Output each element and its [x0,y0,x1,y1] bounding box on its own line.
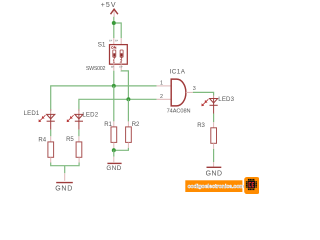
svg-text:SWS002: SWS002 [86,66,106,72]
wire junction branch to switch pin right [114,23,121,38]
svg-text:codigoelectronica.com: codigoelectronica.com [188,184,245,190]
svg-text:74AC08N: 74AC08N [167,109,191,115]
logo chip icon [244,177,260,194]
LED2 emission arrows [67,115,73,121]
svg-text:+5V: +5V [101,2,117,9]
svg-text:R3: R3 [197,123,205,129]
wire switch out2 down to net2 [121,71,128,100]
svg-text:IC1A: IC1A [170,69,186,76]
LED2 diode symbol [75,109,83,121]
svg-text:R5: R5 [66,137,74,143]
AND gate output pin 3 [186,86,196,93]
switch S1 element 2 [120,50,123,62]
supply symbol +5V arrow [111,9,118,17]
svg-text:S1: S1 [98,42,106,49]
LED1 diode symbol [47,109,55,121]
AND gate IC1A body [171,79,186,106]
ground GND mid [106,163,121,172]
svg-text:R1: R1 [104,122,112,128]
svg-text:GND: GND [106,165,121,172]
wire gate output to LED3 [193,92,214,95]
LED3 diode symbol [210,96,218,106]
logo banner codigoelectronica.com [185,180,244,192]
resistor R2 [126,121,132,142]
svg-text:2: 2 [160,94,163,100]
wire +5V to junction [113,17,115,23]
ground GND left [55,183,73,193]
LED3 emission arrows [202,99,208,105]
junction dot net1 [112,84,116,88]
wire net2 horizontal to gate pin2 and down to LED2 [79,99,157,111]
ground GND right [206,167,223,177]
svg-text:LED1: LED1 [24,110,40,117]
resistor R5 [76,142,82,157]
op gate IC1A input pin 1 [157,80,171,86]
svg-text:3: 3 [193,86,196,92]
wire R1 bottom to junction [113,142,115,150]
switch S1 body SWS002 [110,45,128,65]
switch S1 bottom pins [114,64,121,71]
svg-text:LED3: LED3 [218,96,234,103]
wire LED2 to R5 [78,121,80,142]
wire R3 to GND [213,143,215,167]
resistor R4 [48,142,54,157]
resistor R1 [111,121,117,142]
resistor R3 [211,128,217,144]
wire net1 down to R1 [113,86,115,122]
junction dot R1 R2 [112,148,116,152]
wire switch out1 down to net1 [113,71,115,86]
svg-text:GND: GND [206,170,223,177]
wire junction to switch pin left [113,23,115,38]
svg-text:GND: GND [55,186,73,193]
junction dot net2 [126,97,130,101]
wire R4 R5 bottoms to GND left [51,157,79,181]
wire R2 bottom to junction [114,142,129,150]
switch S1 top pins [114,38,121,44]
junction dot top [112,21,116,25]
svg-text:LED2: LED2 [82,112,98,119]
switch S1 element 1 [113,50,116,62]
LED1 emission arrows [39,115,45,121]
wire net1 horizontal to gate pin1 and down to LED1 [51,86,157,111]
svg-text:R4: R4 [38,138,46,144]
svg-text:1: 1 [160,80,163,86]
switch S1 bottom pin names [111,66,122,68]
svg-text:R2: R2 [132,122,140,128]
wire LED3 to R3 [213,105,215,128]
wire net2 down to R2 [127,99,129,121]
wire junction to GND mid [113,150,115,162]
op gate IC1A input pin 2 [157,94,171,100]
switch S1 top pin names [110,40,118,42]
wire LED1 to R4 [50,121,52,142]
